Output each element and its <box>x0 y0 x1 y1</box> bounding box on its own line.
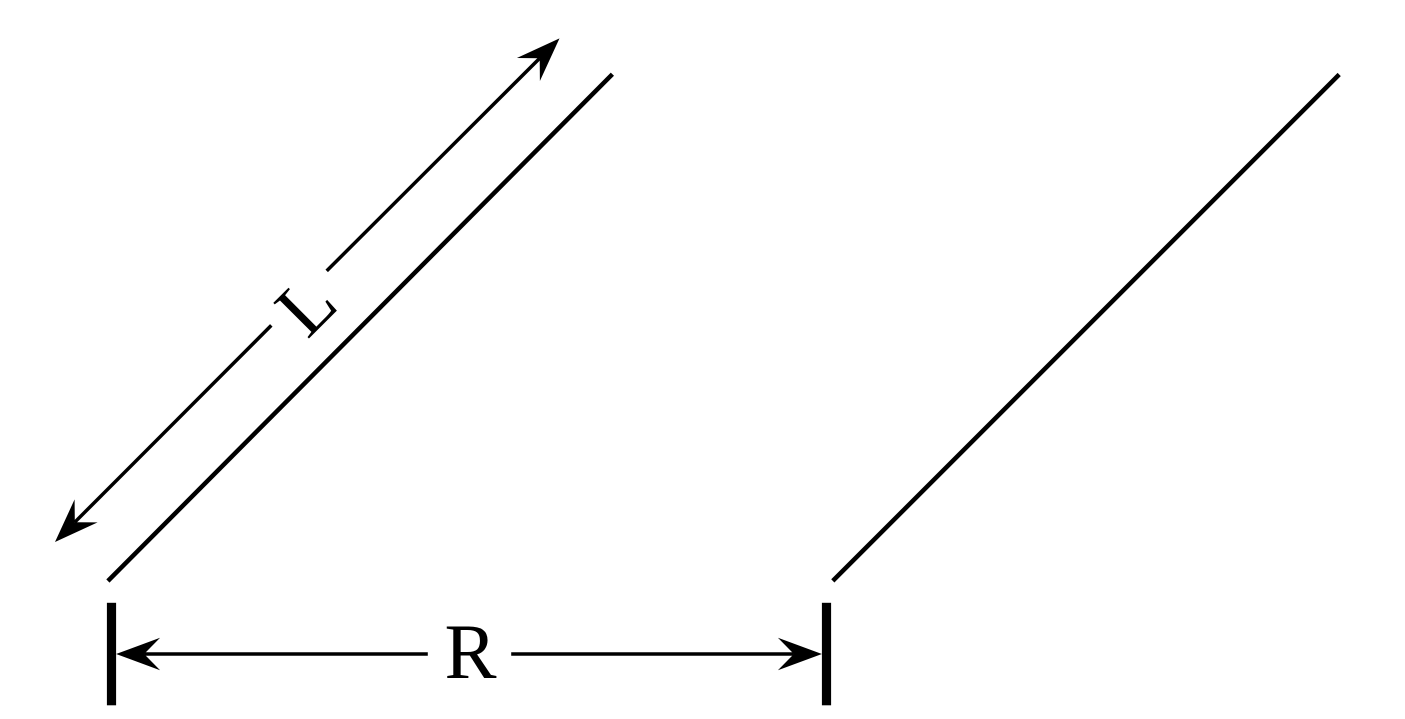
tick right <box>822 603 831 706</box>
dimension arrow R shaft right segment <box>511 652 794 656</box>
dimension arrow R shaft left segment <box>144 652 428 656</box>
svg-text:L: L <box>259 258 353 352</box>
dimension arrow L shaft lower segment <box>75 325 271 522</box>
dimension arrow L shaft upper segment <box>327 58 540 271</box>
svg-text:R: R <box>444 608 496 695</box>
tick left <box>107 603 116 706</box>
wire right diagonal line <box>833 75 1339 581</box>
arrowhead left end of R arrow <box>116 638 160 671</box>
arrowhead right end of R arrow <box>778 638 822 671</box>
wire left diagonal line <box>108 74 613 581</box>
arrowhead upper end of L arrow <box>517 38 560 81</box>
arrowhead lower end of L arrow <box>55 499 98 542</box>
